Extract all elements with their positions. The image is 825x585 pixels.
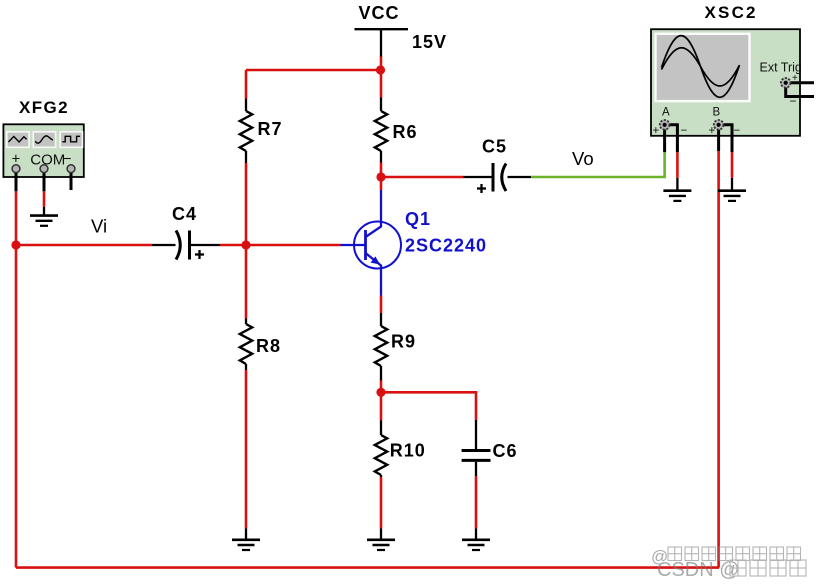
- svg-text:Vi: Vi: [91, 216, 107, 237]
- svg-text:Vo: Vo: [572, 148, 594, 169]
- svg-text:−: −: [734, 125, 741, 137]
- svg-text:C4: C4: [172, 204, 197, 224]
- svg-text:−: −: [790, 94, 797, 108]
- svg-text:Q1: Q1: [405, 209, 431, 229]
- svg-text:C6: C6: [493, 441, 518, 461]
- svg-text:2SC2240: 2SC2240: [405, 236, 487, 256]
- svg-text:C5: C5: [482, 137, 507, 157]
- svg-text:B: B: [713, 106, 721, 118]
- svg-text:A: A: [662, 106, 670, 118]
- svg-text:+: +: [792, 73, 798, 84]
- svg-text:XFG2: XFG2: [19, 98, 69, 117]
- svg-text:R7: R7: [258, 119, 283, 139]
- svg-text:VCC: VCC: [359, 3, 400, 23]
- svg-text:−: −: [681, 125, 688, 137]
- svg-text:CSDN @: CSDN @: [657, 559, 740, 581]
- svg-text:15V: 15V: [412, 32, 447, 52]
- svg-text:COM: COM: [30, 152, 65, 169]
- svg-text:+: +: [653, 125, 660, 137]
- svg-text:R9: R9: [391, 332, 416, 352]
- svg-text:R8: R8: [256, 336, 281, 356]
- svg-text:XSC2: XSC2: [705, 3, 758, 22]
- svg-text:R6: R6: [393, 122, 418, 142]
- svg-text:R10: R10: [390, 440, 426, 460]
